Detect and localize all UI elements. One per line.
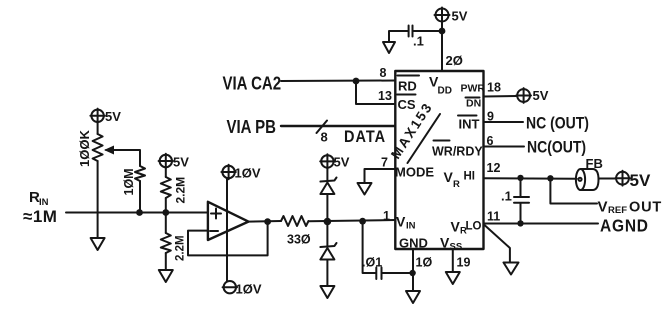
svg-text:V: V — [451, 219, 461, 235]
svg-text:V: V — [444, 169, 454, 185]
power +5V divider supply — [159, 154, 190, 170]
wire 5V to 2.2M — [165, 168, 167, 177]
ferrite bead FB — [576, 156, 603, 190]
svg-text:PWR: PWR — [461, 83, 486, 95]
label VR HI — [444, 169, 476, 190]
resistor R4 2.2M lower — [161, 233, 187, 261]
svg-text:SS: SS — [450, 242, 463, 253]
label PWR/DN — [461, 83, 486, 110]
svg-text:OUT: OUT — [629, 200, 662, 216]
ground pot — [91, 238, 105, 250]
svg-text:5V: 5V — [533, 88, 549, 103]
power +5V VDD supply — [435, 8, 468, 24]
wire MODE pin 7 to ground — [365, 169, 396, 183]
wire pin 11 VR LO AGND — [484, 223, 599, 225]
node RIN label — [23, 189, 57, 226]
label RD — [398, 76, 420, 94]
svg-text:NC(OUT): NC(OUT) — [527, 138, 586, 156]
label CS — [397, 95, 416, 113]
wire 2.2M lower to ground — [165, 253, 167, 270]
svg-text:18: 18 — [487, 81, 501, 95]
node junction .01 branch — [359, 218, 366, 225]
wire pot top — [97, 123, 99, 134]
label VREF OUT — [598, 199, 663, 217]
op-amp U1 — [208, 202, 249, 240]
wire VDD supply down to pin 20 — [441, 23, 443, 72]
ground diode D2 — [320, 286, 334, 298]
svg-text:1ØØK: 1ØØK — [77, 130, 92, 167]
wire main line to 2.2M lower — [165, 213, 167, 234]
wire pot bottom to ground — [97, 161, 99, 238]
ground VSS pin — [446, 272, 460, 284]
svg-text:9: 9 — [487, 110, 494, 124]
node junction AGND cap — [517, 220, 523, 226]
node junction 10M — [136, 209, 143, 216]
svg-text:6: 6 — [487, 134, 494, 148]
ground VR LO — [504, 263, 519, 275]
svg-text:8: 8 — [321, 130, 328, 145]
svg-text:1ØV: 1ØV — [236, 282, 262, 297]
node junction divider — [162, 209, 169, 216]
svg-text:MODE: MODE — [395, 165, 434, 180]
svg-text:1Ø: 1Ø — [416, 256, 433, 270]
wire D1 to VIN line — [326, 194, 328, 246]
wire GND pin 10 — [412, 249, 414, 291]
wire 5V to diode D1 — [326, 169, 328, 181]
wire op-amp supply vertical — [226, 178, 228, 202]
svg-text:HI: HI — [464, 171, 476, 183]
wire D2 to ground — [326, 260, 328, 287]
power -10V op-amp — [223, 281, 262, 297]
svg-text:19: 19 — [457, 256, 471, 270]
resistor R3 2.2M upper — [161, 177, 188, 204]
svg-text:1ØV: 1ØV — [235, 166, 261, 181]
wire bead to 5V — [599, 178, 616, 180]
node junction GND pin — [409, 270, 415, 276]
wire op-amp output — [248, 220, 281, 223]
svg-text:5V: 5V — [105, 109, 121, 124]
svg-text:≈1M: ≈1M — [23, 207, 57, 226]
diode D1 clamp upper — [320, 178, 336, 195]
svg-text:5V: 5V — [630, 171, 651, 190]
wire pin 9 INT — [484, 121, 524, 123]
node junction diode column — [324, 218, 332, 226]
wire VSS pin 19 — [452, 249, 454, 272]
node junction cap .1 — [517, 175, 523, 181]
label WR/RDY — [432, 141, 483, 159]
svg-text:V: V — [598, 199, 608, 216]
wire VIA PB data bus — [281, 125, 395, 127]
node junction vref — [547, 175, 553, 181]
svg-text:2Ø: 2Ø — [446, 53, 463, 68]
svg-text:DN: DN — [466, 98, 481, 110]
power +5V reference — [615, 171, 651, 190]
svg-text:R: R — [453, 179, 460, 190]
svg-text:11: 11 — [487, 210, 500, 224]
svg-text:2.2M: 2.2M — [174, 177, 188, 204]
resistor R1 100K potentiometer — [77, 130, 117, 167]
wire pin 6 WR/RDY — [484, 146, 525, 148]
capacitor C1 .01 — [362, 256, 382, 280]
svg-text:INT: INT — [459, 117, 480, 132]
svg-text:33Ø: 33Ø — [287, 233, 311, 247]
resistor R2 10M — [122, 166, 145, 196]
node junction RD/CS — [353, 78, 360, 85]
svg-text:VIA CA2: VIA CA2 — [223, 73, 282, 94]
svg-text:5V: 5V — [452, 9, 468, 24]
node junction VDD — [439, 28, 446, 35]
svg-text:WR/RDY: WR/RDY — [432, 145, 483, 159]
label INT — [458, 116, 480, 132]
svg-text:AGND: AGND — [600, 215, 649, 235]
ground bypass cap — [383, 42, 395, 53]
svg-text:7: 7 — [381, 156, 388, 170]
svg-text:REF: REF — [608, 205, 627, 216]
svg-text:NC (OUT): NC (OUT) — [526, 114, 589, 132]
power +5V pot supply — [90, 109, 121, 124]
label MAX153 diagonal — [388, 99, 440, 163]
wire pin 11 diagonal to ground — [485, 226, 510, 263]
wire junction to CS pin 13 — [356, 81, 395, 104]
capacitor C2 .1 bypass — [409, 26, 424, 49]
svg-text:.1: .1 — [501, 189, 512, 204]
svg-text:V: V — [396, 214, 406, 230]
svg-text:5V: 5V — [334, 155, 350, 170]
svg-text:IN: IN — [406, 221, 416, 232]
wire wiper to 10M — [117, 150, 140, 166]
label VSS — [440, 235, 462, 253]
ground MODE — [358, 183, 372, 195]
label VIN — [396, 214, 416, 232]
power +5V clamp supply — [320, 154, 350, 169]
wire VIA CA2 to RD pin 8 — [281, 80, 395, 83]
svg-text:1ØM: 1ØM — [122, 168, 136, 195]
label VDD — [429, 74, 452, 97]
svg-text:5V: 5V — [173, 155, 189, 170]
ground 2.2M lower — [159, 270, 173, 282]
bus slash — [317, 121, 328, 134]
svg-text:.Ø1: .Ø1 — [362, 256, 382, 270]
power +5V PWR/DN — [516, 88, 549, 103]
wire .01 to GND pin junction — [383, 272, 413, 274]
label VR LO — [451, 219, 482, 237]
svg-text:13: 13 — [378, 89, 392, 103]
wire 2.2M to main line — [165, 198, 167, 213]
svg-text:V: V — [440, 235, 450, 251]
diode D2 clamp lower — [320, 243, 336, 260]
svg-text:DD: DD — [438, 86, 452, 97]
wire cap to ground — [389, 31, 408, 42]
svg-text:2.2M: 2.2M — [175, 235, 187, 261]
svg-text:12: 12 — [487, 161, 501, 175]
svg-text:LO: LO — [466, 221, 482, 233]
wire vref out drop — [550, 178, 597, 203]
capacitor C3 .1 reference — [501, 178, 529, 223]
resistor R5 330 — [281, 216, 311, 247]
svg-text:RD: RD — [398, 79, 417, 94]
wire junction to bypass cap — [414, 30, 443, 32]
IC U2 MAX153 body — [395, 71, 483, 249]
node output junction — [264, 218, 271, 225]
wire .01 branch down — [363, 221, 376, 273]
svg-text:DATA: DATA — [344, 128, 386, 146]
wire pin 12 VR HI — [484, 177, 577, 180]
svg-text:.1: .1 — [413, 34, 424, 49]
ground GND pin — [406, 291, 420, 303]
wire feedback loop — [188, 222, 268, 256]
wire main input line — [66, 212, 208, 214]
svg-text:1: 1 — [383, 209, 390, 223]
wire 330 to VIN pin — [309, 220, 396, 221]
svg-text:CS: CS — [398, 97, 416, 112]
svg-text:VIA PB: VIA PB — [227, 117, 276, 138]
wire 10M to main line — [139, 181, 141, 213]
wire pin 18 to 5V — [484, 95, 518, 98]
svg-text:8: 8 — [380, 66, 387, 80]
power +10V op-amp — [221, 165, 260, 181]
